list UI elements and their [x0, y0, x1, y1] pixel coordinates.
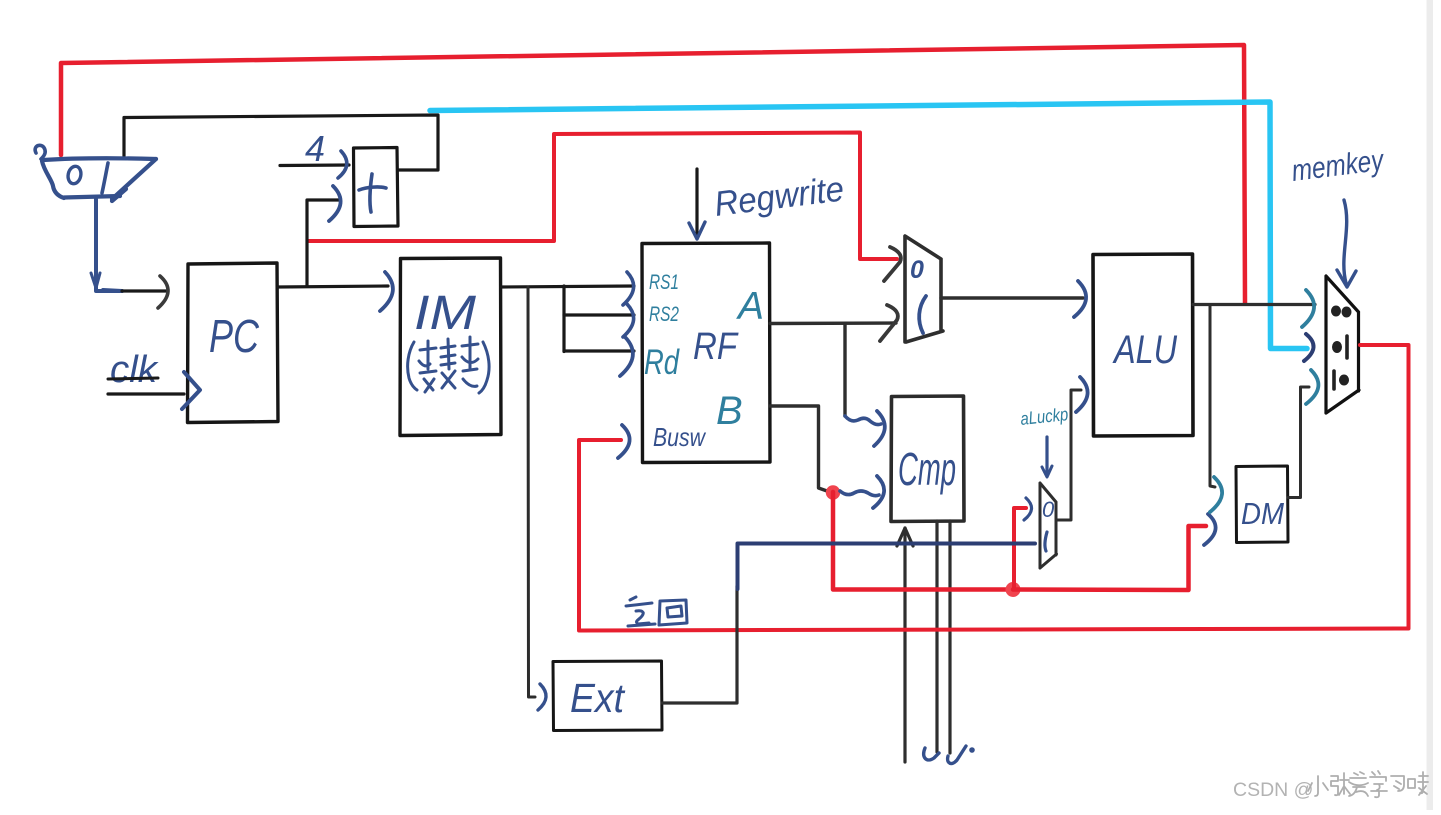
wire: red PC+4 to ALUSrcB mux input 0: [308, 133, 897, 260]
label 1 in ALUSrcB mux: [919, 296, 926, 333]
mux ALUctrl-src (0/1 small): [1040, 483, 1057, 568]
svg-text:0: 0: [910, 256, 924, 284]
label 1 in small mux: [1045, 532, 1047, 551]
label 1 in PCSrc mux: [102, 163, 108, 193]
mux memkey (00/01/10): [1326, 276, 1359, 413]
svg-text:ALU: ALU: [1112, 328, 1178, 372]
svg-text:PC: PC: [209, 310, 260, 362]
label xie-hui (writeback) scribble: [626, 597, 687, 626]
wire: cyan PC+4 to memkey mux input 01: [430, 102, 1307, 349]
wire: ALU output to memkey mux input 00: [1193, 303, 1315, 306]
wire: red to DM write port: [1013, 526, 1206, 590]
label 10: [1332, 371, 1336, 389]
wire: riser and branches to RS2 and Rd: [562, 286, 565, 352]
right page-edge band: [1427, 0, 1434, 810]
wire: clk into PC: [108, 392, 184, 395]
svg-text:IM: IM: [414, 287, 476, 340]
svg-text:CSDN @: CSDN @: [1233, 779, 1313, 801]
wire: instruction down to Ext: [528, 287, 535, 697]
wire: DM output up into memkey mux input 10: [1288, 387, 1309, 498]
svg-text:RS1: RS1: [649, 271, 679, 294]
wire: Ext output to small mux input 1: [662, 586, 737, 703]
label 00: [1331, 306, 1341, 317]
svg-text:DM: DM: [1241, 496, 1284, 531]
wire: ALUSrc mux output into ALU input 1: [941, 296, 1083, 299]
wire: red B-bus down and across: [833, 492, 1011, 590]
label 0 in PCSrc mux: [67, 165, 83, 185]
svg-text:Rd: Rd: [644, 343, 680, 382]
wire: red up into small mux input 0: [1014, 508, 1026, 588]
svg-text:Cmp: Cmp: [898, 443, 956, 495]
wire: red branch feedback from ALU output to PCSrc mux input 0: [61, 45, 1245, 303]
wires: Cmp lower signals: [903, 528, 906, 762]
wire: A branch down to Cmp: [843, 324, 846, 417]
svg-text:Busw: Busw: [653, 422, 707, 452]
comparator Cmp: [891, 396, 964, 522]
svg-text:B: B: [716, 389, 743, 433]
svg-text:0: 0: [1042, 497, 1055, 522]
register file RF: [642, 243, 770, 463]
control Regwrite with arrow into RF top: [695, 169, 698, 236]
memory IM (instruction memory): [400, 258, 501, 436]
arrowheads into RF ports: [623, 272, 634, 305]
wire: into PC: [122, 289, 168, 292]
wire: B to Cmp input 2: [840, 491, 879, 496]
memory DM (data memory): [1236, 466, 1288, 543]
arrowhead into PC: [158, 276, 168, 308]
extender Ext: [553, 661, 662, 731]
svg-text:RS2: RS2: [649, 303, 679, 326]
junction dot B: [826, 485, 840, 499]
wire: RF B output down: [770, 406, 827, 491]
wire: IM output to RF RS1: [501, 286, 634, 287]
junction dot writeback: [1006, 582, 1021, 597]
wire: small mux output up into ALU input 2: [1056, 390, 1081, 520]
wire: PC output to IM: [278, 286, 388, 287]
wire: riser from PC output up to adder input 2: [307, 200, 339, 286]
mux ALUSrcB (0/1): [905, 236, 943, 342]
svg-text:RF: RF: [693, 326, 739, 368]
svg-text:clk: clk: [110, 349, 159, 391]
label 01: [1332, 341, 1342, 353]
wire: RF A output to ALUSrc mux input 1: [770, 321, 896, 325]
label (zhi chu cun) hand-scribble: [408, 337, 489, 393]
svg-text:4: 4: [305, 128, 325, 169]
svg-text:Ext: Ext: [570, 675, 625, 721]
wire: red memkey mux output, writeback bus to Busw: [579, 345, 1409, 631]
svg-text:A: A: [736, 285, 764, 328]
wire: PCSrc mux output down to PC input: [96, 199, 122, 291]
wire: black adder output feedback to PCSrc mux input 1: [124, 115, 438, 170]
adder +4: [354, 148, 399, 227]
wire: Ext input from instruction bus: [538, 684, 546, 710]
wire: ALU result down to DM address: [1210, 305, 1215, 488]
ALU: [1093, 254, 1193, 436]
register PC: [188, 263, 279, 423]
mux PCSrc (top-left, hand-drawn navy trapezoid): [35, 145, 45, 159]
